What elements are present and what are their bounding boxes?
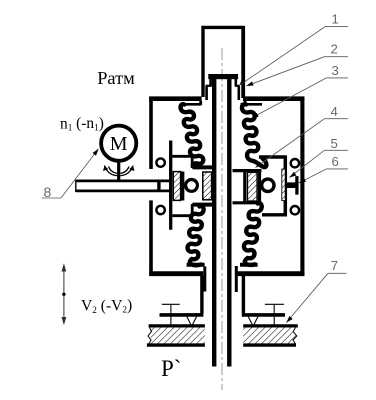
piston plate bar left bbox=[181, 172, 185, 201]
left collar stub bbox=[203, 267, 206, 292]
right shaft collar plates, item 4 bbox=[233, 169, 262, 204]
arm end T-bar bbox=[157, 182, 160, 191]
right collar stub bbox=[235, 266, 238, 292]
svg-text:Р`: Р` bbox=[161, 356, 181, 381]
leader 5 bbox=[289, 150, 348, 177]
right foundation pad, hatched bbox=[243, 326, 298, 345]
motor M circle bbox=[101, 126, 136, 161]
housing (outer case) bbox=[149, 97, 304, 276]
ball right bbox=[262, 179, 274, 191]
upper right bellows bbox=[242, 104, 266, 167]
hatched block left 2 (shaft collar) bbox=[203, 172, 212, 200]
right hatch strip bbox=[282, 169, 285, 201]
right T screw bbox=[265, 304, 284, 325]
hatched block left 1 bbox=[173, 172, 180, 201]
leader 7 bbox=[286, 273, 346, 322]
left V weld mark bbox=[187, 317, 197, 326]
ball left bbox=[186, 180, 198, 192]
svg-text:8: 8 bbox=[44, 184, 52, 200]
lower left bellows bbox=[188, 206, 204, 265]
svg-text:4: 4 bbox=[331, 104, 338, 119]
lower right bellows bottom cap bbox=[240, 263, 258, 267]
svg-text:2: 2 bbox=[331, 42, 338, 57]
leader 2 bbox=[246, 57, 348, 86]
adjusting screw T, item 6 bbox=[287, 176, 297, 195]
motor stem bbox=[117, 161, 120, 180]
leader 4 bbox=[256, 119, 349, 168]
right leg and bracket bbox=[242, 276, 285, 315]
drive arm (lever), item 8 target bbox=[76, 180, 172, 192]
right bolt circles bbox=[291, 159, 299, 167]
svg-text:1: 1 bbox=[332, 12, 339, 27]
svg-text:5: 5 bbox=[331, 136, 338, 151]
left bottom jaw + lower bellows top cap bbox=[172, 204, 213, 217]
hatched block right bbox=[247, 172, 257, 201]
oscillation arcs bbox=[105, 166, 134, 176]
upper left bellows, item 3 bbox=[181, 104, 204, 166]
top flange / bellows upper cap (hat), item 2 bbox=[206, 74, 240, 100]
leader 6 bbox=[299, 169, 348, 183]
left leg and bracket bbox=[160, 276, 204, 315]
svg-text:Ратм: Ратм bbox=[97, 68, 135, 88]
centerline (vertical axis) bbox=[221, 48, 223, 390]
leader 8 bbox=[42, 149, 99, 198]
lower left bellows bottom cap bbox=[187, 263, 205, 267]
leader 1 bbox=[240, 26, 348, 85]
lower right bellows bbox=[244, 203, 262, 265]
left top jaw + upper bellows lower cap bbox=[172, 155, 213, 168]
leader 3 bbox=[252, 78, 349, 118]
left T screw bbox=[162, 304, 180, 325]
top tube (stem pipe), item 1 area bbox=[202, 26, 245, 98]
svg-text:3: 3 bbox=[332, 63, 339, 78]
left foundation pad, hatched bbox=[147, 326, 205, 345]
right caps and plate, item 5 bbox=[259, 155, 285, 216]
right V weld mark bbox=[248, 317, 258, 326]
left bolt circles bbox=[156, 158, 164, 166]
svg-text:6: 6 bbox=[332, 154, 339, 169]
V2 double-headed arrow bbox=[63, 268, 65, 321]
svg-text:М: М bbox=[110, 133, 128, 155]
bellows top mounting rings bbox=[185, 101, 262, 105]
left bracket plate bbox=[169, 141, 172, 230]
central shaft (rod) bbox=[214, 79, 229, 367]
svg-text:7: 7 bbox=[331, 258, 338, 273]
